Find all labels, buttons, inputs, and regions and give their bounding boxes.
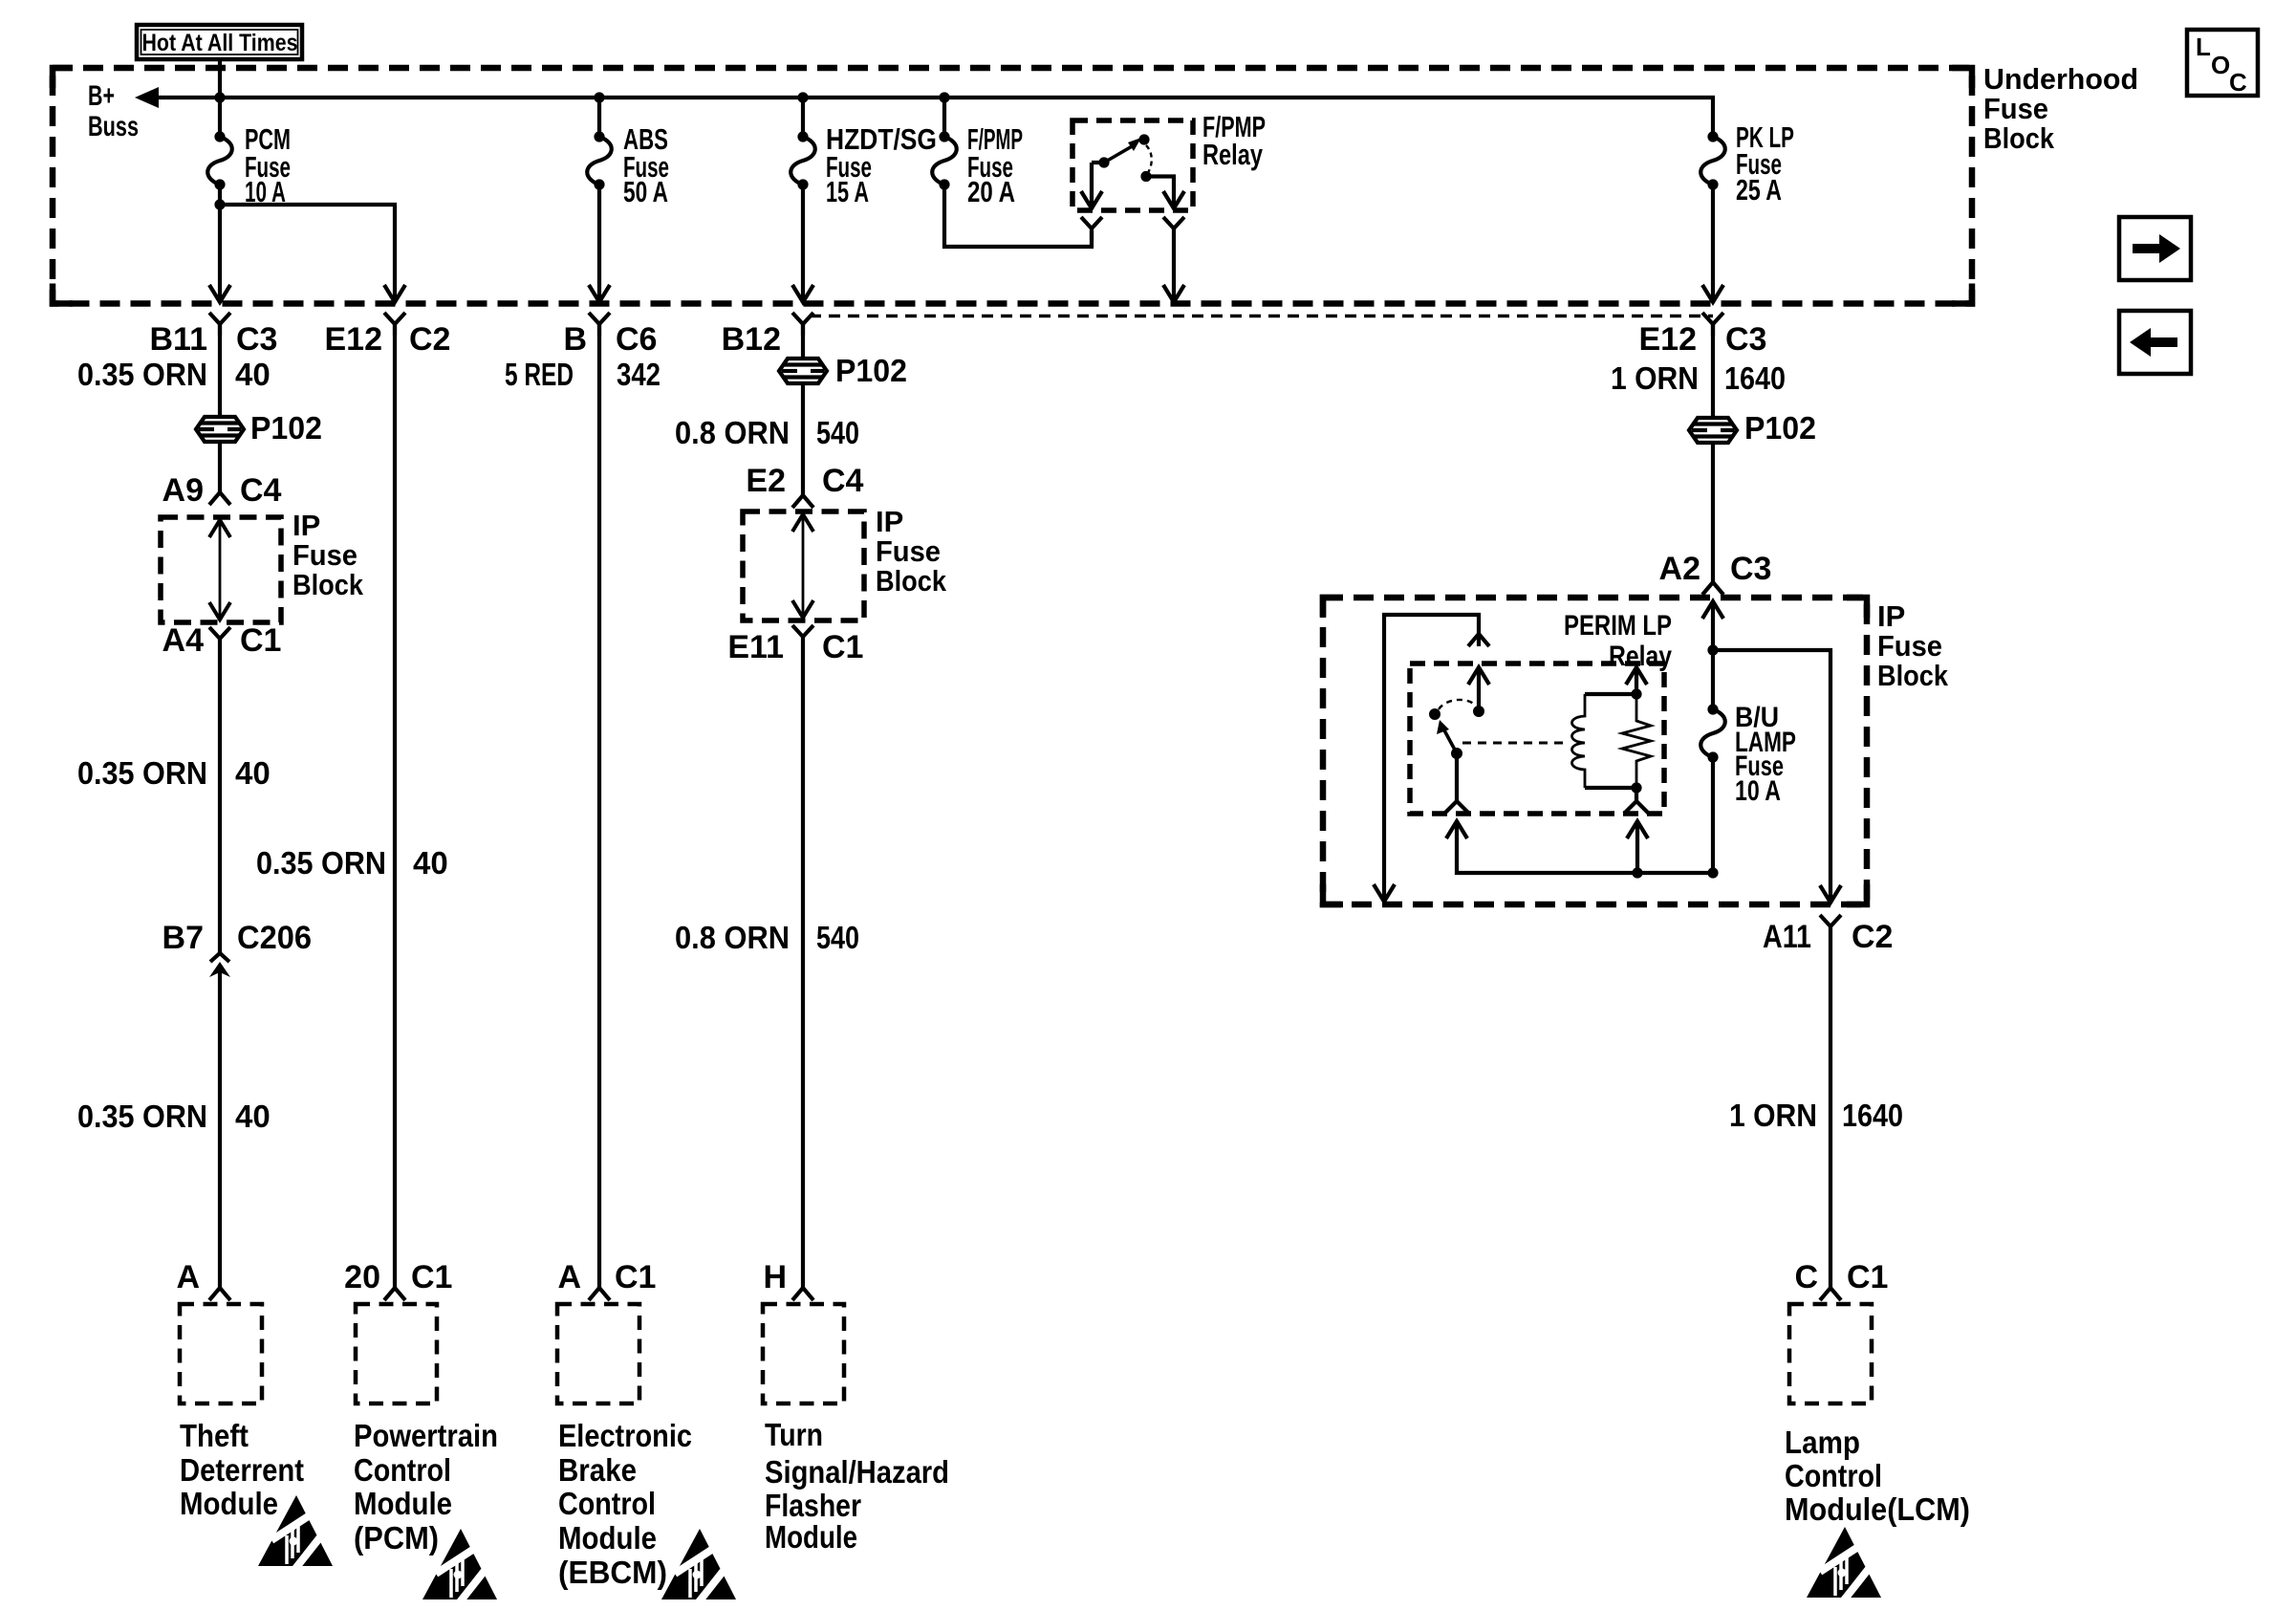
right arrow navigation box — [2119, 217, 2191, 280]
svg-text:0.35 ORN: 0.35 ORN — [256, 845, 386, 881]
svg-text:C1: C1 — [822, 629, 863, 665]
svg-text:E2: E2 — [746, 463, 786, 499]
wire PK LP fuse to border — [1711, 185, 1715, 303]
svg-text:C1: C1 — [240, 622, 281, 659]
wire bus to ABS fuse — [597, 98, 601, 137]
svg-text:40: 40 — [413, 845, 448, 881]
svg-text:0.35 ORN: 0.35 ORN — [77, 755, 207, 791]
wire B+ bus — [156, 98, 1713, 137]
wire bus to HZDT/SG fuse — [801, 98, 805, 137]
arrow at underhood border (HZDT/SG) — [792, 285, 813, 302]
coil/resistor rails — [1585, 692, 1636, 696]
svg-text:40: 40 — [235, 1099, 271, 1134]
svg-text:C4: C4 — [240, 472, 282, 509]
Underhood Fuse Block border — [53, 68, 1972, 304]
svg-text:Block: Block — [1983, 121, 2055, 155]
IP Fuse Block (middle) border — [743, 511, 864, 620]
connector fork A/C1 (EBCM) — [589, 1288, 610, 1300]
arrow into IP block at A2 — [1702, 601, 1723, 619]
svg-text:C1: C1 — [1847, 1259, 1888, 1295]
svg-text:A: A — [176, 1259, 200, 1295]
svg-text:342: 342 — [617, 357, 661, 392]
fuse PCM 10A — [207, 137, 232, 185]
arrow at IP block bottom (relay feed) — [1374, 884, 1395, 902]
svg-text:Electronic: Electronic — [558, 1418, 692, 1453]
svg-text:Module: Module — [180, 1486, 278, 1521]
svg-text:Signal/Hazard: Signal/Hazard — [765, 1454, 949, 1490]
relay switch common contact — [1138, 134, 1149, 144]
connector fork 20/C1 — [384, 1288, 405, 1300]
ESD symbol Theft — [258, 1495, 333, 1570]
svg-text:1640: 1640 — [1842, 1098, 1903, 1133]
svg-text:Block: Block — [876, 564, 947, 598]
splice connector P102 right — [1689, 418, 1737, 443]
PERIM LP Relay box — [1410, 664, 1664, 814]
ESD symbol EBCM — [661, 1529, 736, 1603]
svg-text:C206: C206 — [237, 920, 312, 956]
node B+ Buss arrow — [135, 87, 159, 108]
connector fork A (Theft) — [209, 1288, 230, 1300]
svg-text:Turn: Turn — [765, 1417, 823, 1452]
svg-text:Relay: Relay — [1202, 138, 1264, 171]
wire bus to PCM fuse — [218, 98, 222, 137]
svg-text:Module: Module — [558, 1520, 657, 1556]
svg-text:E12: E12 — [325, 321, 383, 358]
svg-text:Module(LCM): Module(LCM) — [1785, 1491, 1970, 1527]
arrows at relay box bottom — [1081, 191, 1102, 208]
arrows into PERIM relay pins — [1446, 821, 1467, 838]
svg-text:P102: P102 — [1744, 410, 1816, 446]
svg-text:0.8 ORN: 0.8 ORN — [675, 920, 790, 955]
svg-text:0.35 ORN: 0.35 ORN — [77, 357, 207, 392]
svg-text:B7: B7 — [162, 920, 204, 956]
svg-text:A11: A11 — [1763, 919, 1811, 955]
svg-text:L: L — [2196, 33, 2211, 61]
splice connector P102 left — [196, 417, 244, 442]
IP Fuse Block (right) border — [1323, 598, 1867, 904]
thin dashed boundary line — [810, 315, 1713, 317]
svg-text:B+: B+ — [88, 80, 115, 112]
svg-text:0.8 ORN: 0.8 ORN — [675, 415, 790, 450]
connector fork C/C1 — [1820, 1288, 1841, 1300]
in-line connector C206 symbol — [210, 953, 229, 962]
connector forks below F/PMP relay — [1081, 217, 1102, 240]
svg-text:1 ORN: 1 ORN — [1611, 360, 1699, 396]
svg-text:(PCM): (PCM) — [354, 1520, 439, 1556]
svg-text:E12: E12 — [1639, 321, 1698, 358]
svg-text:H: H — [763, 1259, 787, 1295]
svg-text:C6: C6 — [616, 321, 657, 358]
svg-text:Buss: Buss — [88, 111, 139, 142]
svg-text:Block: Block — [292, 568, 364, 601]
svg-text:Underhood: Underhood — [1983, 62, 2138, 96]
wire E11/C1 to Turn module — [801, 648, 805, 1288]
arrow at relay NO contact — [1468, 667, 1489, 685]
fuse B/U LAMP 10A — [1700, 709, 1725, 757]
fuse ABS 50A — [587, 137, 612, 185]
junction dots on B+ bus — [214, 92, 225, 102]
wire A4/C1 to C206 — [218, 650, 222, 953]
svg-text:Module: Module — [354, 1486, 452, 1521]
wire coil top pin — [1635, 669, 1638, 694]
svg-text:P102: P102 — [250, 410, 322, 446]
svg-text:C3: C3 — [1730, 551, 1771, 587]
svg-text:C1: C1 — [411, 1259, 452, 1295]
wire P102 to A2/C3 — [1711, 442, 1715, 582]
wire to relay coil pin — [1635, 822, 1639, 873]
svg-text:A: A — [557, 1259, 581, 1295]
arrows through IP fuse block (left) — [209, 520, 230, 537]
arrow at IP block bottom (A11) — [1820, 885, 1841, 903]
fuse PK LP 25A — [1700, 137, 1725, 185]
connector fork A11/C2 — [1820, 915, 1841, 938]
svg-text:Theft: Theft — [180, 1418, 249, 1453]
IP Fuse Block (left) border — [161, 517, 281, 622]
svg-text:Control: Control — [558, 1486, 656, 1521]
svg-text:1 ORN: 1 ORN — [1729, 1098, 1817, 1133]
arrows through IP fuse block (middle) — [792, 514, 813, 532]
svg-text:C4: C4 — [822, 463, 864, 499]
arrow at underhood border (PK LP) — [1702, 285, 1723, 302]
svg-text:A9: A9 — [162, 472, 204, 509]
fuse F/PMP 20A — [932, 137, 957, 185]
wire F/PMP fuse to relay left pin — [944, 185, 1092, 247]
border corner patches — [53, 68, 73, 88]
svg-text:20 A: 20 A — [967, 175, 1015, 208]
svg-text:C3: C3 — [1725, 321, 1766, 358]
svg-text:Lamp: Lamp — [1785, 1425, 1860, 1460]
arrow at underhood border (relay output) — [1163, 285, 1184, 302]
wire B/C6 to EBCM module — [597, 324, 601, 1288]
wire ABS fuse to border — [597, 185, 601, 303]
connector fork H — [792, 1288, 813, 1300]
svg-text:IP: IP — [1877, 599, 1905, 633]
wire C206 to Theft module — [218, 972, 222, 1288]
connector fork A4/C1 — [209, 627, 230, 650]
relay coil bottom pin — [1624, 788, 1649, 814]
svg-text:Fuse: Fuse — [292, 538, 357, 572]
relay switch left contact — [1098, 157, 1109, 167]
arrow at underhood border (ABS) — [589, 285, 610, 302]
connector forks row 1 below underhood border — [209, 313, 230, 336]
svg-text:PERIM LP: PERIM LP — [1564, 610, 1672, 642]
svg-text:540: 540 — [816, 415, 859, 450]
wire branch PCM to E12/C2 — [220, 205, 395, 303]
relay switch contacts — [1429, 708, 1440, 720]
svg-text:B12: B12 — [722, 321, 781, 358]
svg-text:E11: E11 — [727, 629, 784, 665]
wire through IP fuse block (middle) — [802, 515, 805, 618]
svg-text:15 A: 15 A — [826, 175, 869, 208]
wire NO contact up — [1477, 669, 1481, 711]
relay dashed arc — [1146, 145, 1152, 174]
svg-text:Brake: Brake — [558, 1452, 637, 1488]
ESD symbol LCM — [1807, 1527, 1881, 1601]
svg-text:Control: Control — [354, 1452, 451, 1488]
label box "Hot At All Times" — [137, 25, 302, 59]
svg-text:(EBCM): (EBCM) — [558, 1555, 667, 1590]
svg-text:5 RED: 5 RED — [505, 357, 574, 392]
Theft Deterrent Module box — [180, 1304, 262, 1403]
svg-text:40: 40 — [235, 357, 271, 392]
arrow at relay coil top pin — [1626, 667, 1647, 685]
wire E12/C2 to PCM module — [393, 324, 397, 1288]
Powertrain Control Module box — [356, 1304, 437, 1403]
connector fork E11/C1 — [792, 625, 813, 648]
wire relay output to border — [1172, 240, 1176, 303]
relay moving contact pin — [1444, 753, 1469, 814]
fuse HZDT/SG 15A — [791, 137, 815, 185]
wire to A11 branch — [1713, 650, 1830, 903]
left arrow navigation box — [2119, 311, 2191, 374]
svg-text:20: 20 — [344, 1259, 380, 1295]
Lamp Control Module box — [1789, 1304, 1872, 1403]
connector fork A2/C3 — [1702, 582, 1723, 595]
svg-text:P102: P102 — [835, 353, 907, 388]
svg-text:C2: C2 — [1852, 919, 1893, 955]
svg-text:C1: C1 — [615, 1259, 656, 1295]
svg-text:Block: Block — [1877, 659, 1949, 692]
splice connector P102 middle — [779, 359, 827, 383]
relay resistor — [1622, 694, 1651, 788]
svg-text:40: 40 — [235, 755, 271, 791]
relay switch dashed arc — [1439, 700, 1476, 709]
svg-text:B11: B11 — [150, 321, 208, 358]
wire A11/C2 to LCM — [1829, 938, 1832, 1288]
wire HZDT/SG fuse to border — [801, 185, 805, 303]
svg-text:C3: C3 — [236, 321, 277, 358]
LOC reference box — [2187, 30, 2258, 96]
mechanical linkage dashed — [1462, 742, 1570, 745]
relay switch arm — [1437, 720, 1449, 734]
wire PCM fuse to border — [218, 185, 222, 303]
relay coil — [1572, 694, 1586, 788]
svg-text:IP: IP — [292, 509, 320, 542]
connector fork A9/C4 — [209, 492, 230, 505]
svg-text:10 A: 10 A — [1735, 775, 1781, 807]
wire B11 to P102 — [218, 324, 222, 418]
svg-text:B: B — [563, 321, 587, 358]
svg-text:Control: Control — [1785, 1458, 1882, 1493]
svg-text:C: C — [2229, 68, 2247, 97]
svg-text:1640: 1640 — [1724, 360, 1786, 396]
svg-text:A4: A4 — [162, 622, 205, 659]
svg-text:0.35 ORN: 0.35 ORN — [77, 1099, 207, 1134]
svg-text:IP: IP — [876, 505, 903, 538]
connector fork at relay NO contact output — [1468, 634, 1489, 646]
svg-text:Fuse: Fuse — [1983, 92, 2048, 125]
F/PMP Relay box — [1072, 120, 1193, 210]
wire E12/C3 to P102 right — [1711, 324, 1715, 418]
svg-text:C2: C2 — [409, 321, 450, 358]
svg-text:Module: Module — [765, 1519, 857, 1555]
svg-text:Fuse: Fuse — [876, 534, 941, 568]
Turn Signal/Hazard Flasher Module box — [763, 1304, 844, 1403]
wire B/U fuse to relay pins bus — [1457, 757, 1713, 873]
connector fork E2/C4 — [792, 495, 813, 508]
wire P102 to A9/C4 — [218, 441, 222, 492]
wire through IP fuse block (left) — [219, 521, 222, 620]
ESD symbol PCM — [422, 1529, 497, 1603]
wire P102 to E2/C4 — [801, 382, 805, 495]
svg-text:Relay: Relay — [1609, 641, 1672, 672]
svg-text:Flasher: Flasher — [765, 1488, 861, 1523]
svg-text:540: 540 — [816, 920, 859, 955]
svg-text:A2: A2 — [1659, 551, 1700, 587]
wire bus to F/PMP fuse — [942, 98, 946, 137]
relay switch arm with arrow — [1128, 138, 1141, 151]
svg-text:25 A: 25 A — [1736, 173, 1782, 207]
wire A2 to B/U fuse — [1711, 601, 1715, 709]
wire Hot-box stub — [218, 61, 222, 98]
svg-text:Hot At All Times: Hot At All Times — [142, 30, 298, 56]
svg-text:Powertrain: Powertrain — [354, 1418, 498, 1453]
svg-text:O: O — [2211, 51, 2230, 79]
wire B12 to P102 — [801, 324, 805, 359]
relay right pin — [1140, 171, 1151, 182]
svg-text:Fuse: Fuse — [1877, 629, 1942, 663]
svg-text:50 A: 50 A — [623, 175, 668, 208]
Electronic Brake Control Module box — [557, 1304, 639, 1403]
relay left pin wire — [1090, 163, 1094, 209]
svg-text:Deterrent: Deterrent — [180, 1452, 304, 1488]
svg-text:C: C — [1794, 1259, 1818, 1295]
arrows at underhood border (PCM, E12/C2) — [209, 285, 230, 302]
